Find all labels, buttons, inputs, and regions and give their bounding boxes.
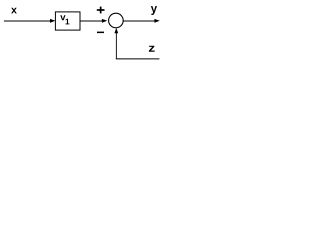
node y label: [151, 6, 157, 15]
minus sign at summing junction: [97, 32, 104, 33]
wire summing junction to output y: [123, 20, 155, 22]
wire input x to block v1: [4, 20, 51, 22]
arrowhead into summing junction: [102, 19, 107, 23]
node x label: [11, 8, 17, 14]
arrowhead into block v1: [50, 19, 55, 23]
block label v: [60, 15, 65, 20]
node z label: [149, 46, 155, 52]
block label subscript 1: [66, 19, 70, 25]
summing junction circle: [109, 13, 124, 28]
arrowhead into summing junction from z: [114, 28, 118, 33]
wire block v1 to summing junction: [80, 20, 102, 22]
output arrowhead y: [154, 19, 159, 23]
block v1: [55, 12, 80, 30]
feedback wire z vertical: [115, 33, 117, 59]
feedback wire z horizontal: [116, 58, 159, 60]
plus sign at summing junction: [97, 7, 105, 14]
